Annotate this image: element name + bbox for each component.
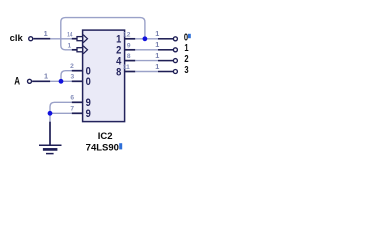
svg-text:0: 0 bbox=[184, 32, 188, 43]
svg-text:74LS90: 74LS90 bbox=[86, 142, 119, 153]
pin 11 QD stub bbox=[125, 71, 136, 73]
terminal A circle bbox=[28, 79, 32, 83]
wire net Q0 (pin 12 to terminal) bbox=[135, 38, 158, 40]
wire clk net segment to pin 14 bbox=[50, 38, 72, 40]
pin 1 clock wedge bbox=[83, 46, 87, 54]
junction node ground net bbox=[48, 111, 53, 116]
pin 3 R02 stub bbox=[72, 80, 83, 82]
wire net Q1 (pin 9 to terminal) bbox=[135, 49, 158, 51]
terminal A dark wire bbox=[32, 80, 50, 82]
terminal 1 dark wire bbox=[158, 49, 173, 51]
wire ground node down bbox=[49, 113, 51, 122]
blue cursor mark after 74LS90 bbox=[119, 143, 122, 149]
wire feedback loop Q0 to CKB (net) bbox=[61, 18, 145, 50]
terminal 2 dark wire bbox=[158, 60, 173, 62]
wire net Q2 (pin 8 to terminal) bbox=[135, 60, 158, 62]
svg-text:clk: clk bbox=[10, 33, 24, 44]
svg-text:14: 14 bbox=[67, 31, 73, 38]
pin 1 clock box bbox=[77, 48, 83, 52]
svg-text:A: A bbox=[14, 75, 20, 87]
ground symbol bar 3 bbox=[46, 153, 54, 155]
pin 9 QB stub bbox=[125, 49, 136, 51]
svg-text:1: 1 bbox=[44, 72, 48, 81]
pin 6 R91 stub bbox=[72, 101, 83, 103]
pin 7 R92 stub bbox=[72, 112, 83, 114]
svg-text:1: 1 bbox=[155, 29, 159, 38]
svg-text:2: 2 bbox=[184, 54, 188, 65]
terminal clk circle bbox=[29, 37, 33, 41]
terminal 3 circle bbox=[173, 70, 177, 74]
svg-text:9: 9 bbox=[127, 42, 131, 49]
svg-text:1: 1 bbox=[155, 62, 159, 71]
ground pin dark wire bbox=[49, 122, 51, 145]
svg-text:1: 1 bbox=[155, 51, 159, 60]
pin 14 clock wedge bbox=[83, 35, 87, 43]
terminal 2 circle bbox=[173, 59, 177, 63]
pin 2 R01 stub bbox=[72, 70, 83, 72]
junction node clk feedback on Q0 wire bbox=[143, 36, 148, 41]
IC IC2 body (74LS90) bbox=[83, 30, 125, 122]
pin 8 QC stub bbox=[125, 60, 136, 62]
svg-text:8: 8 bbox=[127, 53, 131, 60]
pin 12 QA stub bbox=[125, 38, 136, 40]
ground symbol bar 1 bbox=[39, 144, 62, 146]
terminal 0 dark wire bbox=[158, 38, 173, 40]
svg-text:11: 11 bbox=[123, 64, 130, 71]
svg-text:1: 1 bbox=[155, 40, 159, 49]
svg-text:9: 9 bbox=[86, 108, 91, 120]
ground symbol bar 2 bbox=[43, 148, 58, 151]
svg-text:2: 2 bbox=[70, 63, 74, 70]
wire pin 7 to ground node bbox=[50, 112, 72, 114]
terminal clk dark wire bbox=[33, 38, 50, 40]
svg-text:7: 7 bbox=[70, 106, 74, 113]
blue cursor mark next to label 0 bbox=[188, 34, 191, 38]
svg-text:0: 0 bbox=[86, 76, 91, 88]
wire A net segment to pin 3 bbox=[50, 80, 72, 82]
junction node A net bbox=[59, 79, 64, 84]
svg-text:12: 12 bbox=[123, 31, 131, 38]
svg-text:8: 8 bbox=[116, 66, 121, 78]
pin 1 CKB stub bbox=[72, 49, 77, 51]
svg-text:IC2: IC2 bbox=[98, 131, 113, 142]
pin 14 CKA stub bbox=[72, 38, 77, 40]
svg-text:1: 1 bbox=[184, 43, 188, 54]
pin 14 clock box bbox=[77, 37, 83, 41]
svg-text:3: 3 bbox=[184, 65, 188, 76]
wire pin 6 to ground node bbox=[50, 102, 72, 113]
wire net Q3 (pin 11 to terminal) bbox=[135, 71, 158, 73]
terminal 3 dark wire bbox=[158, 71, 173, 73]
terminal 1 circle bbox=[173, 48, 177, 52]
terminal 0 circle bbox=[173, 37, 177, 41]
svg-text:6: 6 bbox=[70, 95, 74, 102]
svg-text:1: 1 bbox=[44, 29, 48, 38]
wire A node up to pin 2 bbox=[61, 71, 72, 82]
svg-text:3: 3 bbox=[71, 74, 75, 81]
svg-text:1: 1 bbox=[68, 43, 72, 50]
